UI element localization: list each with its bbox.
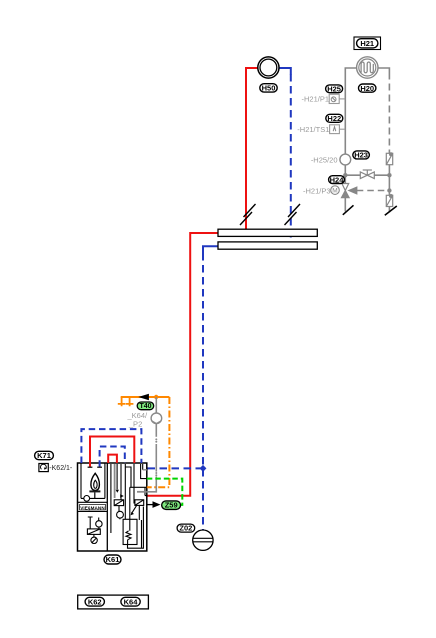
- svg-text:H22: H22: [327, 114, 341, 123]
- svg-text:H50: H50: [262, 83, 276, 92]
- svg-text:_P2: _P2: [128, 419, 142, 428]
- svg-text:K62: K62: [88, 597, 102, 606]
- svg-text:H21: H21: [360, 39, 374, 48]
- svg-text:-H21/P3: -H21/P3: [303, 187, 331, 196]
- svg-text:K61: K61: [106, 555, 120, 564]
- svg-text:-H25/20: -H25/20: [311, 155, 338, 164]
- svg-text:H25: H25: [327, 85, 341, 94]
- svg-text:M: M: [332, 188, 337, 195]
- svg-text:Z02: Z02: [179, 524, 192, 533]
- svg-text:H23: H23: [354, 151, 368, 160]
- svg-text:K64: K64: [124, 597, 139, 606]
- svg-text:-K62/1-: -K62/1-: [49, 465, 73, 472]
- svg-text:H24: H24: [330, 175, 345, 184]
- svg-text:H20: H20: [360, 84, 374, 93]
- svg-text:T40: T40: [139, 403, 151, 410]
- svg-text:-H21/P1: -H21/P1: [301, 95, 329, 104]
- svg-text:K71: K71: [37, 451, 51, 460]
- svg-text:Z59: Z59: [165, 501, 178, 510]
- svg-text:-H21/TS1: -H21/TS1: [297, 125, 329, 134]
- svg-text:VIE§MANN: VIE§MANN: [80, 505, 105, 510]
